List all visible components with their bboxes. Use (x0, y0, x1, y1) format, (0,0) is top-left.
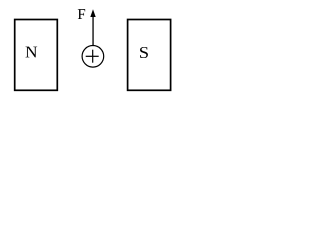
label S (140, 47, 148, 58)
charge symbol circle (82, 46, 104, 68)
charge plus vertical stroke (92, 50, 94, 63)
label F (78, 9, 85, 19)
charge plus horizontal stroke (86, 55, 99, 57)
magnet pole S (right rectangle) (128, 20, 171, 91)
force arrow head (90, 9, 95, 17)
label N (26, 47, 38, 58)
force arrow shaft (92, 14, 94, 45)
magnet pole N (left rectangle) (15, 20, 58, 91)
